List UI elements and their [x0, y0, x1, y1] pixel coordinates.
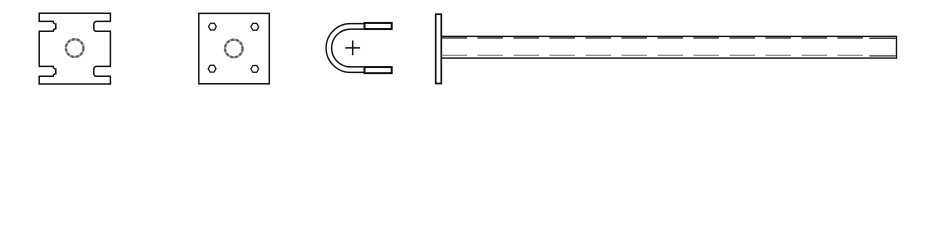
anchor rod R1 hidden line top — [442, 37, 867, 39]
U-bolt U1 outer bend and legs — [326, 24, 364, 73]
anchor rod R1 hidden line bottom — [442, 54, 867, 56]
U-bolt U1 threaded end top — [365, 23, 392, 29]
clamp plate P1 threaded hole — [66, 39, 84, 57]
anchor rod R1 thread line bottom — [870, 55, 896, 57]
U-bolt U1 threaded end bottom — [365, 67, 392, 73]
flange plate P2 threaded hole — [225, 40, 243, 58]
anchor rod R1 shaft — [441, 36, 896, 58]
U-bolt U1 center mark — [345, 41, 360, 56]
flange plate P2 outline — [199, 13, 269, 83]
clamp plate P1 outline — [39, 13, 110, 84]
flange plate P2 bolt hole top-left — [209, 23, 217, 30]
anchor rod R1 flange — [436, 14, 442, 83]
flange plate P2 bolt hole bottom-right — [251, 66, 259, 73]
flange plate P2 bolt hole bottom-left — [208, 65, 216, 72]
anchor rod R1 thread line top — [870, 37, 896, 39]
flange plate P2 bolt hole top-right — [251, 23, 259, 30]
U-bolt U1 inner bend and legs — [332, 29, 364, 67]
